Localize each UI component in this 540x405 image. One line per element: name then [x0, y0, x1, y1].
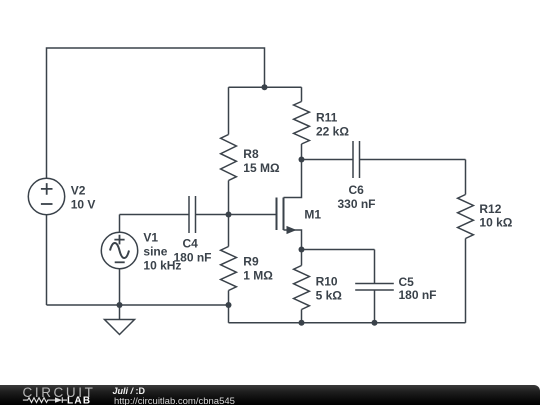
CircuitLab logo [0, 385, 110, 405]
svg-text:LAB: LAB [67, 395, 91, 405]
junction bottom rail at C5 [372, 320, 378, 326]
wire top rail from V2 to step-down [47, 48, 265, 178]
footer bar [0, 385, 540, 405]
svg-text:V2: V2 [71, 184, 86, 198]
resistor R11 [294, 87, 310, 159]
MOSFET M1 [277, 160, 302, 250]
svg-text:M1: M1 [304, 208, 321, 222]
svg-text:180 nF: 180 nF [399, 288, 437, 302]
svg-text:180 nF: 180 nF [174, 251, 212, 265]
junction node drain/C6 [299, 157, 305, 163]
junction gate rail at R8/R9 [226, 212, 232, 218]
svg-text:330 nF: 330 nF [338, 197, 376, 211]
wire gate rail right of C4 [196, 214, 277, 216]
junction source node [299, 247, 305, 253]
wire rail R8 to R11 [229, 86, 302, 88]
wire step down to bottom rail [228, 305, 230, 323]
resistor R12 [458, 160, 474, 323]
svg-text:15 MΩ: 15 MΩ [243, 161, 280, 175]
svg-text:C5: C5 [399, 275, 415, 289]
wire V1 top lead [119, 215, 121, 233]
footer title Juli / :D [113, 386, 146, 396]
wire bottom rail [229, 322, 466, 324]
svg-text:R9: R9 [243, 255, 259, 269]
junction bottom rail at R10 [299, 320, 305, 326]
ground symbol [105, 305, 135, 335]
svg-text:C4: C4 [183, 237, 199, 251]
svg-text:22 kΩ: 22 kΩ [316, 125, 349, 139]
wire C6 to R12 [360, 159, 466, 161]
wire gate rail left of C4 [120, 214, 190, 216]
svg-text:10 kΩ: 10 kΩ [479, 216, 512, 230]
svg-text:1 MΩ: 1 MΩ [243, 269, 273, 283]
voltage source V1 (sine) [101, 232, 137, 268]
voltage source V2 [28, 178, 64, 214]
svg-text:C6: C6 [349, 183, 365, 197]
wire V1 bottom lead [119, 269, 121, 305]
svg-text:R10: R10 [316, 274, 338, 288]
svg-text:V1: V1 [143, 231, 158, 245]
svg-text:sine: sine [143, 245, 167, 259]
capacitor C5 [355, 250, 394, 323]
svg-text:10 V: 10 V [71, 198, 96, 212]
wire node rail to C6 [302, 159, 354, 161]
svg-text:R12: R12 [479, 202, 501, 216]
resistor R9 [221, 215, 237, 306]
resistor R10 [294, 250, 310, 323]
capacitor C6 [353, 141, 360, 178]
svg-text:5 kΩ: 5 kΩ [316, 288, 343, 302]
svg-text:R8: R8 [243, 147, 259, 161]
wire left bottom rail [47, 304, 229, 306]
wire V2 bottom lead [46, 215, 48, 305]
junction ground node [117, 302, 123, 308]
wire source node to C5 [302, 249, 375, 251]
junction left rail at R9 [226, 302, 232, 308]
footer url [114, 396, 235, 405]
capacitor C4 [189, 196, 196, 233]
junction at top rail x=264.5 [262, 84, 268, 90]
svg-text:R11: R11 [316, 111, 338, 125]
resistor R8 [221, 87, 237, 214]
